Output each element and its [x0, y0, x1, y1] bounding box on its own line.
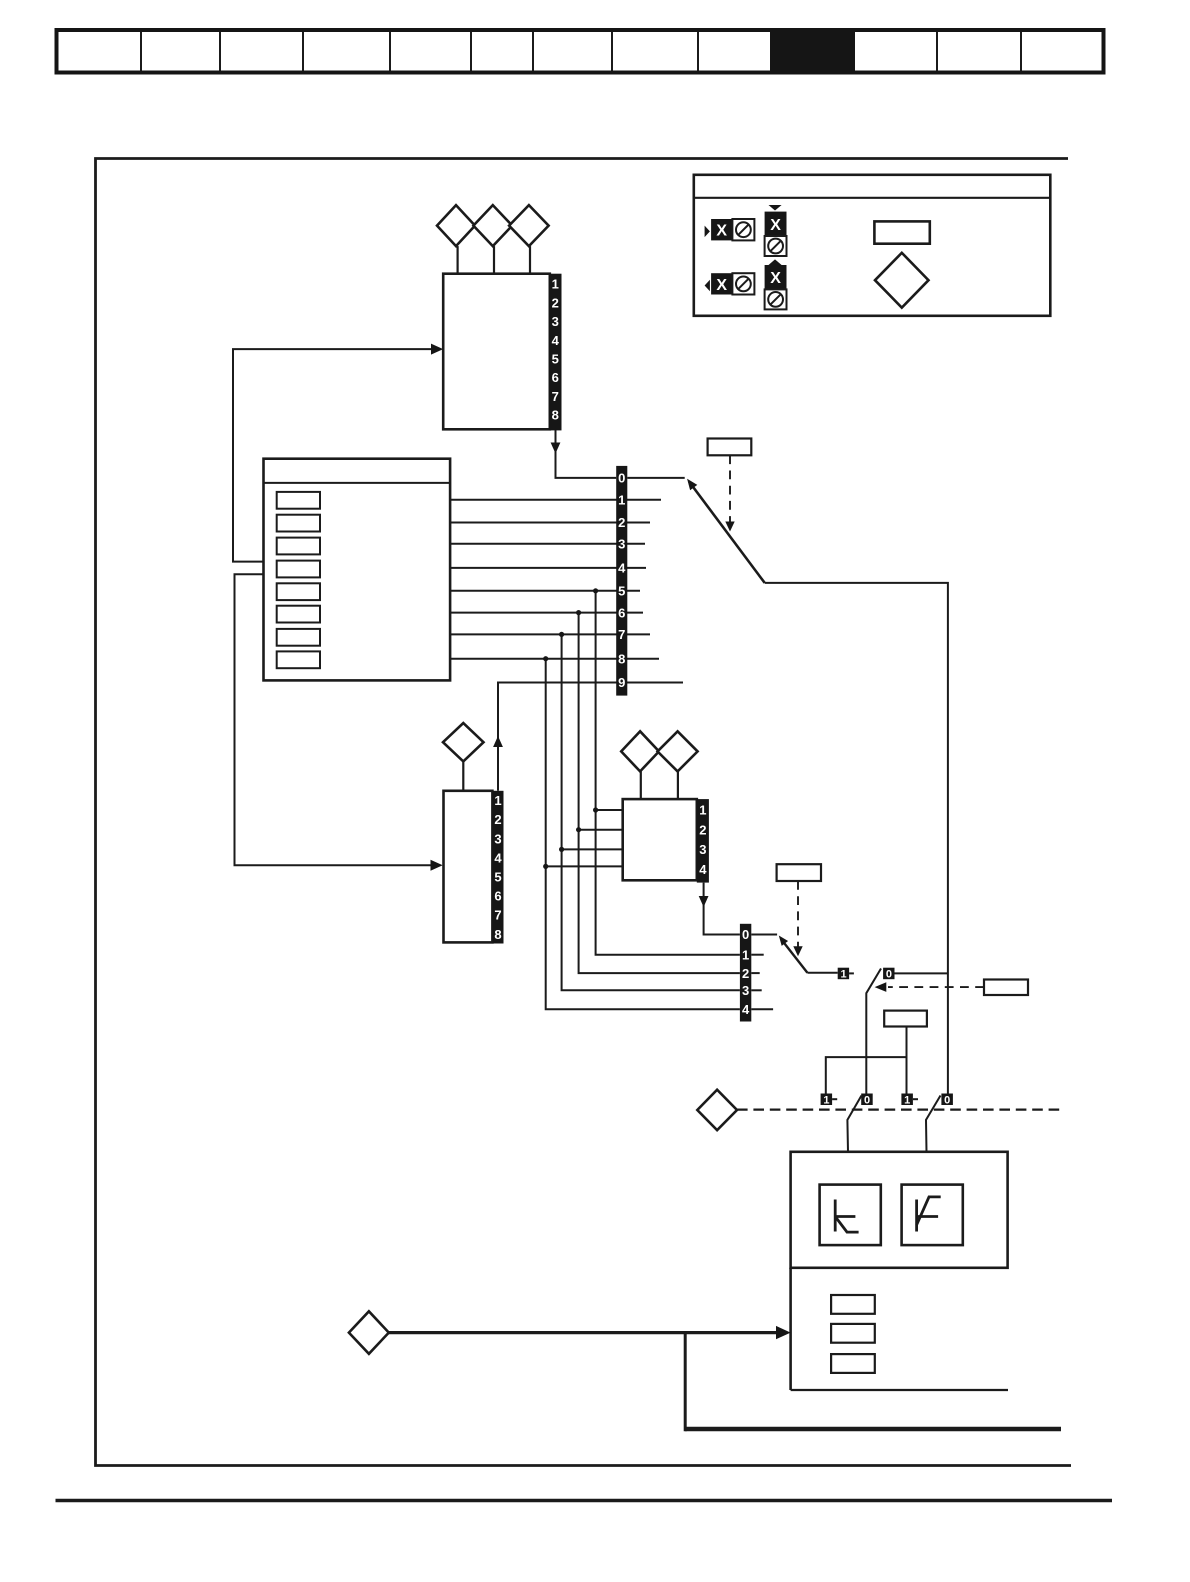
svg-text:0: 0	[864, 1094, 870, 1106]
block B1 pin strip 1-8	[549, 274, 562, 431]
parameter box ctrl2	[777, 864, 821, 881]
svg-text:X: X	[716, 277, 727, 294]
stem D4	[640, 771, 642, 799]
svg-text:0: 0	[618, 470, 625, 485]
wire B2 out 8 to selector S1 contact 8	[450, 658, 659, 660]
diamond D1 above block B1	[437, 205, 475, 246]
svg-text:3: 3	[552, 314, 559, 329]
block B2 parameter rect 5	[277, 583, 320, 600]
svg-text:3: 3	[742, 983, 749, 998]
key: output terminal marker (left triangle)	[705, 280, 710, 292]
wire B2 out 6 to selector S1 contact 6	[450, 612, 643, 614]
svg-text:4: 4	[618, 561, 626, 576]
svg-text:7: 7	[618, 627, 625, 642]
selector S2 contact 0 stub	[751, 934, 777, 936]
junction dot B4 input 4	[543, 864, 548, 869]
svg-text:0: 0	[886, 969, 892, 981]
heavy output wire at bottom	[685, 1427, 1061, 1432]
wire B2 out 7 to selector S1 contact 7	[450, 633, 650, 635]
dashed ctrl2 arrowhead	[793, 946, 802, 956]
svg-text:1: 1	[618, 492, 625, 507]
parameter box ctrl3	[984, 980, 1028, 996]
svg-text:X: X	[770, 217, 781, 234]
svg-text:X: X	[770, 270, 781, 287]
svg-text:1: 1	[742, 947, 749, 962]
switch S3 arm	[866, 969, 881, 1094]
stem D5	[677, 771, 679, 799]
selector S1 contact 0 stub	[627, 477, 684, 479]
selector S1 arm	[689, 482, 765, 583]
svg-text:6: 6	[494, 889, 501, 904]
svg-text:5: 5	[494, 870, 501, 885]
block B2 parameter rect 2	[277, 515, 320, 532]
svg-text:2: 2	[699, 822, 706, 837]
decel ramp icon	[835, 1200, 858, 1233]
diamond D5 above block B4	[658, 731, 698, 771]
svg-text:4: 4	[552, 333, 560, 348]
block B4 body	[623, 799, 697, 880]
selector S2 arm arrowhead	[779, 936, 788, 946]
diamond above block B3	[443, 723, 484, 761]
svg-text:4: 4	[494, 850, 502, 865]
key: input parameter X box	[711, 219, 732, 240]
selector S2 contact 3 stub	[751, 989, 761, 991]
svg-text:5: 5	[618, 584, 625, 599]
selector S1 arm arrowhead	[687, 479, 697, 491]
wire S3 terminal 0 to S1 output line	[895, 972, 948, 974]
wire B2 out 3 to selector S1 contact 3	[450, 543, 645, 545]
header table active black cell	[770, 28, 855, 75]
svg-text:8: 8	[552, 408, 559, 423]
selector S2 contact 2 stub	[751, 972, 759, 974]
block B2 parameter rect 1	[277, 492, 320, 509]
page bottom rule	[56, 1499, 1113, 1502]
svg-text:3: 3	[699, 842, 706, 857]
key: input parameter 0 box	[732, 219, 754, 240]
parameter box feeding jog terminals	[884, 1011, 927, 1027]
svg-text:2: 2	[618, 515, 625, 530]
key: output parameter X box	[711, 273, 732, 294]
svg-text:1: 1	[904, 1094, 910, 1106]
diamond D4 above block B4	[621, 731, 659, 771]
switch P1 terminal 1 stub	[832, 1098, 837, 1100]
dashed control line ctrl3	[888, 986, 984, 988]
stem D3	[529, 246, 531, 274]
switch P2 terminal 1 box	[901, 1094, 913, 1107]
lower compartment parameter rect 3	[831, 1354, 875, 1373]
stem B3 diamond	[462, 761, 464, 790]
key: read-only parameter diamond	[875, 253, 929, 308]
switch P2 terminal 0 box	[941, 1094, 953, 1107]
block B2 body (menu parameter block)	[264, 459, 451, 681]
wire B2 out 5 to selector S1 contact 5	[450, 590, 640, 592]
svg-text:1: 1	[840, 969, 846, 981]
branch wire down from bottom input	[684, 1333, 687, 1432]
block B2 parameter rect 7	[277, 629, 320, 646]
selector S2 strip 0-4	[740, 924, 751, 1022]
dashed ctrl3 arrowhead	[875, 982, 887, 992]
block B4 input wire 2	[579, 829, 623, 831]
svg-text:7: 7	[552, 389, 559, 404]
wire B2 out 4 to selector S1 contact 4	[450, 567, 646, 569]
block B4 input wire 1	[596, 809, 623, 811]
svg-text:7: 7	[494, 908, 501, 923]
junction dot B4 input 1	[593, 807, 598, 812]
switch P1 arm	[847, 1096, 861, 1152]
svg-text:4: 4	[699, 862, 707, 877]
svg-text:8: 8	[618, 651, 625, 666]
accel ramp icon	[917, 1197, 941, 1232]
svg-text:9: 9	[618, 675, 625, 690]
block B4 input wire 4	[546, 865, 623, 867]
selector S2 contact 1 stub	[751, 954, 763, 956]
flow arrow up on contact 9 wire	[493, 736, 503, 747]
wire to selector S1 contact 9 from block B3 strip top	[498, 683, 683, 791]
tapped column from S1 line 8 to selector S2 contact 4	[546, 659, 740, 1010]
svg-text:1: 1	[552, 277, 559, 292]
svg-text:X: X	[716, 223, 727, 240]
key: stacked X/0 with up arrow	[765, 259, 787, 309]
block B2 parameter rect 8	[277, 651, 320, 668]
svg-text:2: 2	[742, 966, 749, 981]
block B2 parameter rect 6	[277, 606, 320, 623]
tapped column from S1 line 6 to selector S2 contact 2	[579, 613, 740, 974]
sequencer bus diamond	[697, 1090, 737, 1131]
svg-text:1: 1	[494, 793, 501, 808]
key: stacked X/0 with down arrow	[765, 205, 787, 256]
svg-text:0: 0	[944, 1094, 950, 1106]
diamond D2 above block B1	[473, 205, 512, 246]
switch S3 terminal 0 box	[883, 968, 894, 981]
block B3 body	[444, 791, 493, 943]
selector S2 output wire	[807, 972, 837, 974]
svg-text:3: 3	[494, 831, 501, 846]
switch P2 terminal 1 stub	[913, 1098, 918, 1100]
ramp block body	[791, 1152, 1008, 1268]
lower compartment parameter rect 2	[831, 1324, 875, 1343]
junction dot tap line6	[576, 610, 581, 615]
key box	[694, 175, 1051, 316]
key: read-write parameter rectangle	[874, 221, 929, 243]
switch S3 terminal 1 stub	[849, 972, 854, 974]
block B1 body	[443, 274, 550, 430]
svg-text:2: 2	[552, 295, 559, 310]
dashed ctrl1 arrowhead	[725, 522, 734, 532]
wire B2 out 1 to selector S1 contact 1	[450, 499, 661, 501]
bottom input diamond	[349, 1311, 389, 1354]
junction dot tap line8	[543, 656, 548, 661]
block B2 header divider	[264, 482, 451, 484]
dashed control line ctrl2	[797, 881, 799, 947]
stem D2	[493, 246, 495, 274]
block B3 pin strip 1-8	[492, 791, 503, 944]
svg-text:6: 6	[618, 605, 625, 620]
selector S1 strip 0-9	[616, 466, 627, 696]
svg-text:1: 1	[823, 1094, 829, 1106]
flow arrow down on B4 feed wire	[699, 896, 709, 907]
selector S1 output wire to P2-0 terminal	[765, 583, 948, 1094]
selector S2 contact 4 stub	[751, 1008, 773, 1010]
junction dot tap line7	[559, 632, 564, 637]
tapped column from S1 line 7 to selector S2 contact 3	[562, 634, 740, 990]
lower compartment parameter rect 1	[831, 1295, 875, 1314]
wire B2 out 2 to selector S1 contact 2	[450, 522, 650, 524]
svg-text:2: 2	[494, 812, 501, 827]
switch P2 arm	[926, 1096, 941, 1152]
junction dot B4 input 2	[576, 827, 581, 832]
junction dot B4 input 3	[559, 847, 564, 852]
junction dot tap line5	[593, 588, 598, 593]
lower compartment left edge	[789, 1268, 792, 1390]
bottom input heavy wire	[389, 1331, 778, 1334]
wire from B1 strip down to selector S1 contact 0	[556, 430, 617, 478]
parameter box ctrl1 (mode select)	[708, 439, 752, 456]
svg-text:0: 0	[742, 927, 749, 942]
svg-text:5: 5	[552, 352, 559, 367]
switch P1 terminal 0 box	[861, 1094, 873, 1107]
svg-text:3: 3	[618, 536, 625, 551]
sequencer dashed bus line	[737, 1108, 1061, 1110]
header table	[57, 30, 1104, 73]
block B4 input wire 3	[562, 848, 623, 850]
switch P1 terminal 1 box	[821, 1094, 833, 1107]
svg-text:6: 6	[552, 370, 559, 385]
key: input terminal marker (right triangle)	[705, 226, 710, 238]
wire A from block B2 left side up into block B1	[233, 349, 440, 561]
arrowhead into block B1	[431, 344, 443, 355]
switch S3 terminal 1 box	[838, 968, 849, 981]
block B2 parameter rect 4	[277, 561, 320, 578]
wire from jog parameter box down	[906, 1027, 908, 1094]
dashed control line ctrl1	[729, 455, 731, 522]
svg-text:4: 4	[742, 1002, 750, 1017]
diamond D3 above block B1	[509, 205, 548, 246]
lower compartment bottom edge	[791, 1389, 1008, 1391]
flow arrow down on B1 feed wire	[551, 443, 561, 454]
stem D1	[457, 246, 459, 274]
arrowhead into block B3	[431, 860, 443, 871]
tapped column from S1 line 5 to selector S2 contact 1	[596, 591, 740, 955]
wire from B4 strip down to selector S2 contact 0	[704, 883, 740, 935]
selector S2 arm	[781, 939, 807, 973]
jog feed distribution wire	[826, 1057, 907, 1093]
wire B from block B2 left side down into block B3	[235, 574, 440, 865]
svg-text:1: 1	[699, 803, 706, 818]
main frame (open right side)	[96, 159, 1072, 1466]
block B2 parameter rect 3	[277, 538, 320, 555]
ramp icon square 1	[820, 1185, 881, 1246]
arrowhead into ramp block lower compartment	[776, 1326, 791, 1339]
key: output parameter 0 box	[732, 273, 754, 294]
block B4 pin strip 1-4	[697, 799, 709, 883]
ramp icon square 2	[902, 1185, 963, 1246]
svg-text:8: 8	[494, 927, 501, 942]
